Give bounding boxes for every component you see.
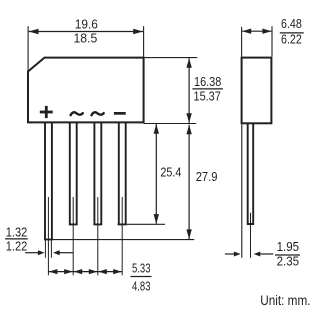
- dimension 6.48/6.22 extension lines: [242, 26, 272, 56]
- pitch dimension arrows 1-2: [48, 269, 73, 274]
- fraction bar 16.38/15.37: [192, 88, 223, 90]
- pitch dimension arrows 3-4: [98, 269, 122, 274]
- pin 4 outline: [119, 122, 126, 224]
- label 1.95: [277, 240, 300, 254]
- svg-text:27.9: 27.9: [196, 170, 218, 184]
- minus terminal mark: [114, 112, 126, 115]
- fraction bar 6.48/6.22: [280, 32, 304, 34]
- svg-text:25.4: 25.4: [160, 166, 181, 180]
- label 18.5: [74, 32, 98, 46]
- extension line body bottom right: [144, 123, 197, 125]
- pin 2 center line: [72, 197, 74, 275]
- svg-text:2.35: 2.35: [277, 255, 300, 269]
- pin 1 outline: [45, 122, 52, 239]
- pin 4 center line: [121, 197, 123, 275]
- svg-text:1.32: 1.32: [6, 225, 28, 239]
- label 2.35: [277, 255, 300, 269]
- svg-text:4.83: 4.83: [132, 279, 151, 293]
- label 19.6: [75, 18, 98, 32]
- svg-text:5.33: 5.33: [132, 262, 151, 276]
- pitch dimension arrows 2-3: [73, 269, 98, 274]
- svg-text:Unit: mm.: Unit: mm.: [260, 293, 310, 309]
- label 5.33: [132, 262, 151, 276]
- dimension line 19.6/18.5: [29, 29, 143, 35]
- side pin center line: [250, 213, 252, 258]
- extension line pin1 bottom (27.9): [44, 239, 194, 241]
- arrow side pin width right: [254, 252, 274, 257]
- dimension line 25.4: [154, 124, 159, 224]
- label 4.83: [132, 279, 151, 293]
- svg-text:1.95: 1.95: [277, 240, 300, 254]
- dimension line 6.48/6.22: [242, 29, 271, 34]
- body front view: [28, 58, 144, 123]
- pin 1 width extension lines: [45, 240, 51, 258]
- svg-text:16.38: 16.38: [194, 75, 221, 89]
- dimension line 27.9: [186, 125, 191, 239]
- side pin outline: [248, 123, 254, 224]
- label 15.37: [194, 90, 221, 104]
- unit note: [260, 293, 310, 309]
- svg-text:6.48: 6.48: [281, 17, 302, 31]
- label 16.38: [194, 75, 221, 89]
- label 6.22: [281, 33, 302, 47]
- label 1.22: [6, 239, 28, 253]
- label 25.4: [160, 166, 181, 180]
- label 1.32: [6, 225, 28, 239]
- label 6.48: [281, 17, 302, 31]
- fraction bar 1.95/2.35: [275, 254, 300, 256]
- svg-text:15.37: 15.37: [194, 90, 221, 104]
- AC terminal mark 1: [71, 112, 83, 115]
- fraction bar 1.32/1.22: [5, 238, 28, 240]
- svg-text:19.6: 19.6: [75, 18, 98, 32]
- pin 3 outline: [94, 122, 101, 224]
- label 27.9: [196, 170, 218, 184]
- svg-text:1.22: 1.22: [6, 239, 28, 253]
- plus terminal mark: [40, 106, 53, 118]
- pin 2 outline: [70, 122, 77, 224]
- extension line body top right: [145, 57, 198, 59]
- fraction bar 5.33/4.83: [130, 276, 151, 278]
- dimension 19.6/18.5 extension lines: [28, 26, 144, 71]
- arrow side pin width left: [225, 252, 241, 257]
- side body left extension line: [241, 124, 243, 257]
- svg-text:6.22: 6.22: [281, 33, 302, 47]
- AC terminal mark 2: [92, 112, 104, 115]
- body side view: [242, 58, 272, 124]
- dimension line 16.38/15.37: [186, 58, 191, 123]
- arrow pin1 width right: [53, 250, 73, 255]
- svg-text:18.5: 18.5: [74, 32, 98, 46]
- pin 1 center line: [47, 197, 49, 275]
- extension line pins bottom (25.4): [118, 223, 166, 225]
- pin 3 center line: [97, 197, 99, 275]
- arrow pin1 width left: [25, 250, 44, 255]
